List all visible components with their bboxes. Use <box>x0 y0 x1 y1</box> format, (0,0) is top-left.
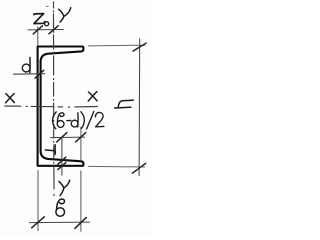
(b-d)/2 dimension line <box>51 136 85 139</box>
b dimension line <box>29 221 89 224</box>
z0 tick left <box>33 26 42 34</box>
z0 tick right <box>49 26 58 34</box>
(b-d)/2 tick right <box>76 133 86 142</box>
label h (rotated) <box>115 100 134 108</box>
label (b-d)/2 <box>53 112 104 130</box>
Y axis (vertical dash-dot centreline) <box>53 2 56 196</box>
label z0 <box>34 14 49 26</box>
(b-d)/2 tick left <box>57 133 67 142</box>
h tick bottom <box>132 163 145 173</box>
label Y bottom <box>59 180 70 195</box>
b tick left <box>32 217 45 228</box>
h tick top <box>133 43 146 51</box>
t tick inner face <box>58 157 66 164</box>
label x left <box>6 94 15 103</box>
d tick <box>35 70 44 78</box>
h top extension line <box>88 44 145 47</box>
(b-d)/2 right extension line <box>80 127 82 160</box>
stray scan dash top-left <box>46 5 48 7</box>
d dimension line <box>14 73 45 76</box>
channel section outline <box>38 47 84 166</box>
z0 extension line (web outer face) <box>37 27 39 46</box>
label t (rotated) <box>45 145 55 155</box>
b right extension line <box>80 171 82 231</box>
h bottom extension line <box>88 165 145 168</box>
t dimension line <box>61 138 63 176</box>
b left extension line <box>37 171 39 231</box>
t tick outer face <box>58 163 66 170</box>
label Y top <box>59 8 71 22</box>
z0 dimension line <box>28 29 63 31</box>
label d <box>22 58 30 73</box>
h dimension line <box>138 39 141 176</box>
label x right <box>88 92 97 101</box>
b tick right <box>75 217 86 228</box>
label b <box>56 199 65 216</box>
x axis (horizontal dash-dot centreline) <box>5 106 98 107</box>
